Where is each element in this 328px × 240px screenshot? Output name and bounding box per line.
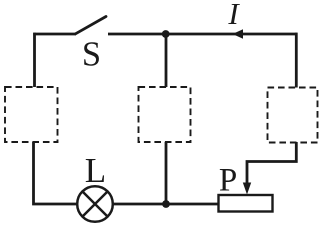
wire: middle box bottom to bottom junction xyxy=(165,142,168,204)
switch S blade xyxy=(76,17,107,34)
lamp L symbol (circle with X) xyxy=(77,186,113,222)
node: top junction dot xyxy=(162,30,170,38)
svg-text:L: L xyxy=(85,151,106,190)
wire: top-left horizontal from corner to switch xyxy=(33,33,76,36)
wire: left box bottom down and right to lamp xyxy=(34,142,78,204)
dashed box right (placeholder) xyxy=(268,88,318,143)
wire: left vertical from top corner down to left box xyxy=(33,33,36,87)
wire: middle vertical from top junction to middle box xyxy=(165,34,168,87)
dashed box left (placeholder) xyxy=(5,87,58,142)
dashed box middle (placeholder) xyxy=(139,87,191,142)
rheostat P body xyxy=(219,195,273,212)
wire: right box bottom, down-left-down to rheostat wiper xyxy=(247,142,296,184)
rheostat wiper arrowhead xyxy=(243,183,251,195)
wire: lamp right side to rheostat xyxy=(113,203,218,206)
svg-text:S: S xyxy=(82,35,101,73)
wire: switch right terminal to top junction xyxy=(108,33,166,36)
current arrow I on top wire xyxy=(233,29,244,39)
svg-text:P: P xyxy=(219,162,237,198)
svg-text:I: I xyxy=(227,0,240,31)
node: bottom junction dot xyxy=(162,200,170,208)
wire: right vertical from top corner down to right box xyxy=(295,33,298,88)
wire: top junction to top-right corner xyxy=(166,33,298,36)
